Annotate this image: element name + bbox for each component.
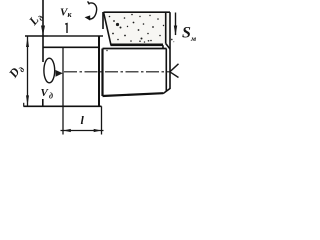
scan speckles — [106, 39, 174, 52]
extension line end tick — [23, 103, 25, 107]
wheel stipple dots — [109, 14, 165, 42]
step line of flange — [43, 46, 99, 48]
feed arrow S_m — [174, 13, 177, 36]
workpiece large flange outline — [24, 36, 104, 106]
inner step vertical edge / extension for l — [62, 47, 64, 134]
label V_k — [60, 7, 73, 20]
svg-text:д: д — [49, 92, 53, 101]
l dimension line with outward arrows — [61, 129, 104, 132]
dimension line L_d with down arrow — [41, 0, 45, 36]
tailstock centre cone — [170, 64, 179, 78]
dimension D_d label — [5, 61, 26, 82]
dimension line D_d with arrows — [26, 37, 29, 106]
wheel rotation symbol (arc with arrow) — [85, 1, 97, 20]
label S_m — [182, 25, 196, 44]
svg-text:м: м — [190, 34, 196, 43]
l dimension extension line right — [101, 106, 103, 134]
small cylinder journal — [103, 44, 171, 97]
label V_d — [41, 87, 54, 101]
grinding wheel (stippled block) — [103, 12, 170, 89]
grinding wheel body fill — [104, 12, 171, 45]
workpiece rotation symbol V_d (ellipse with arrow) — [44, 58, 63, 83]
svg-text:S: S — [182, 25, 191, 42]
dimension L_d label — [25, 10, 45, 30]
centerline of journal (dash-dot) — [64, 71, 171, 73]
tick below V_k — [65, 24, 67, 33]
